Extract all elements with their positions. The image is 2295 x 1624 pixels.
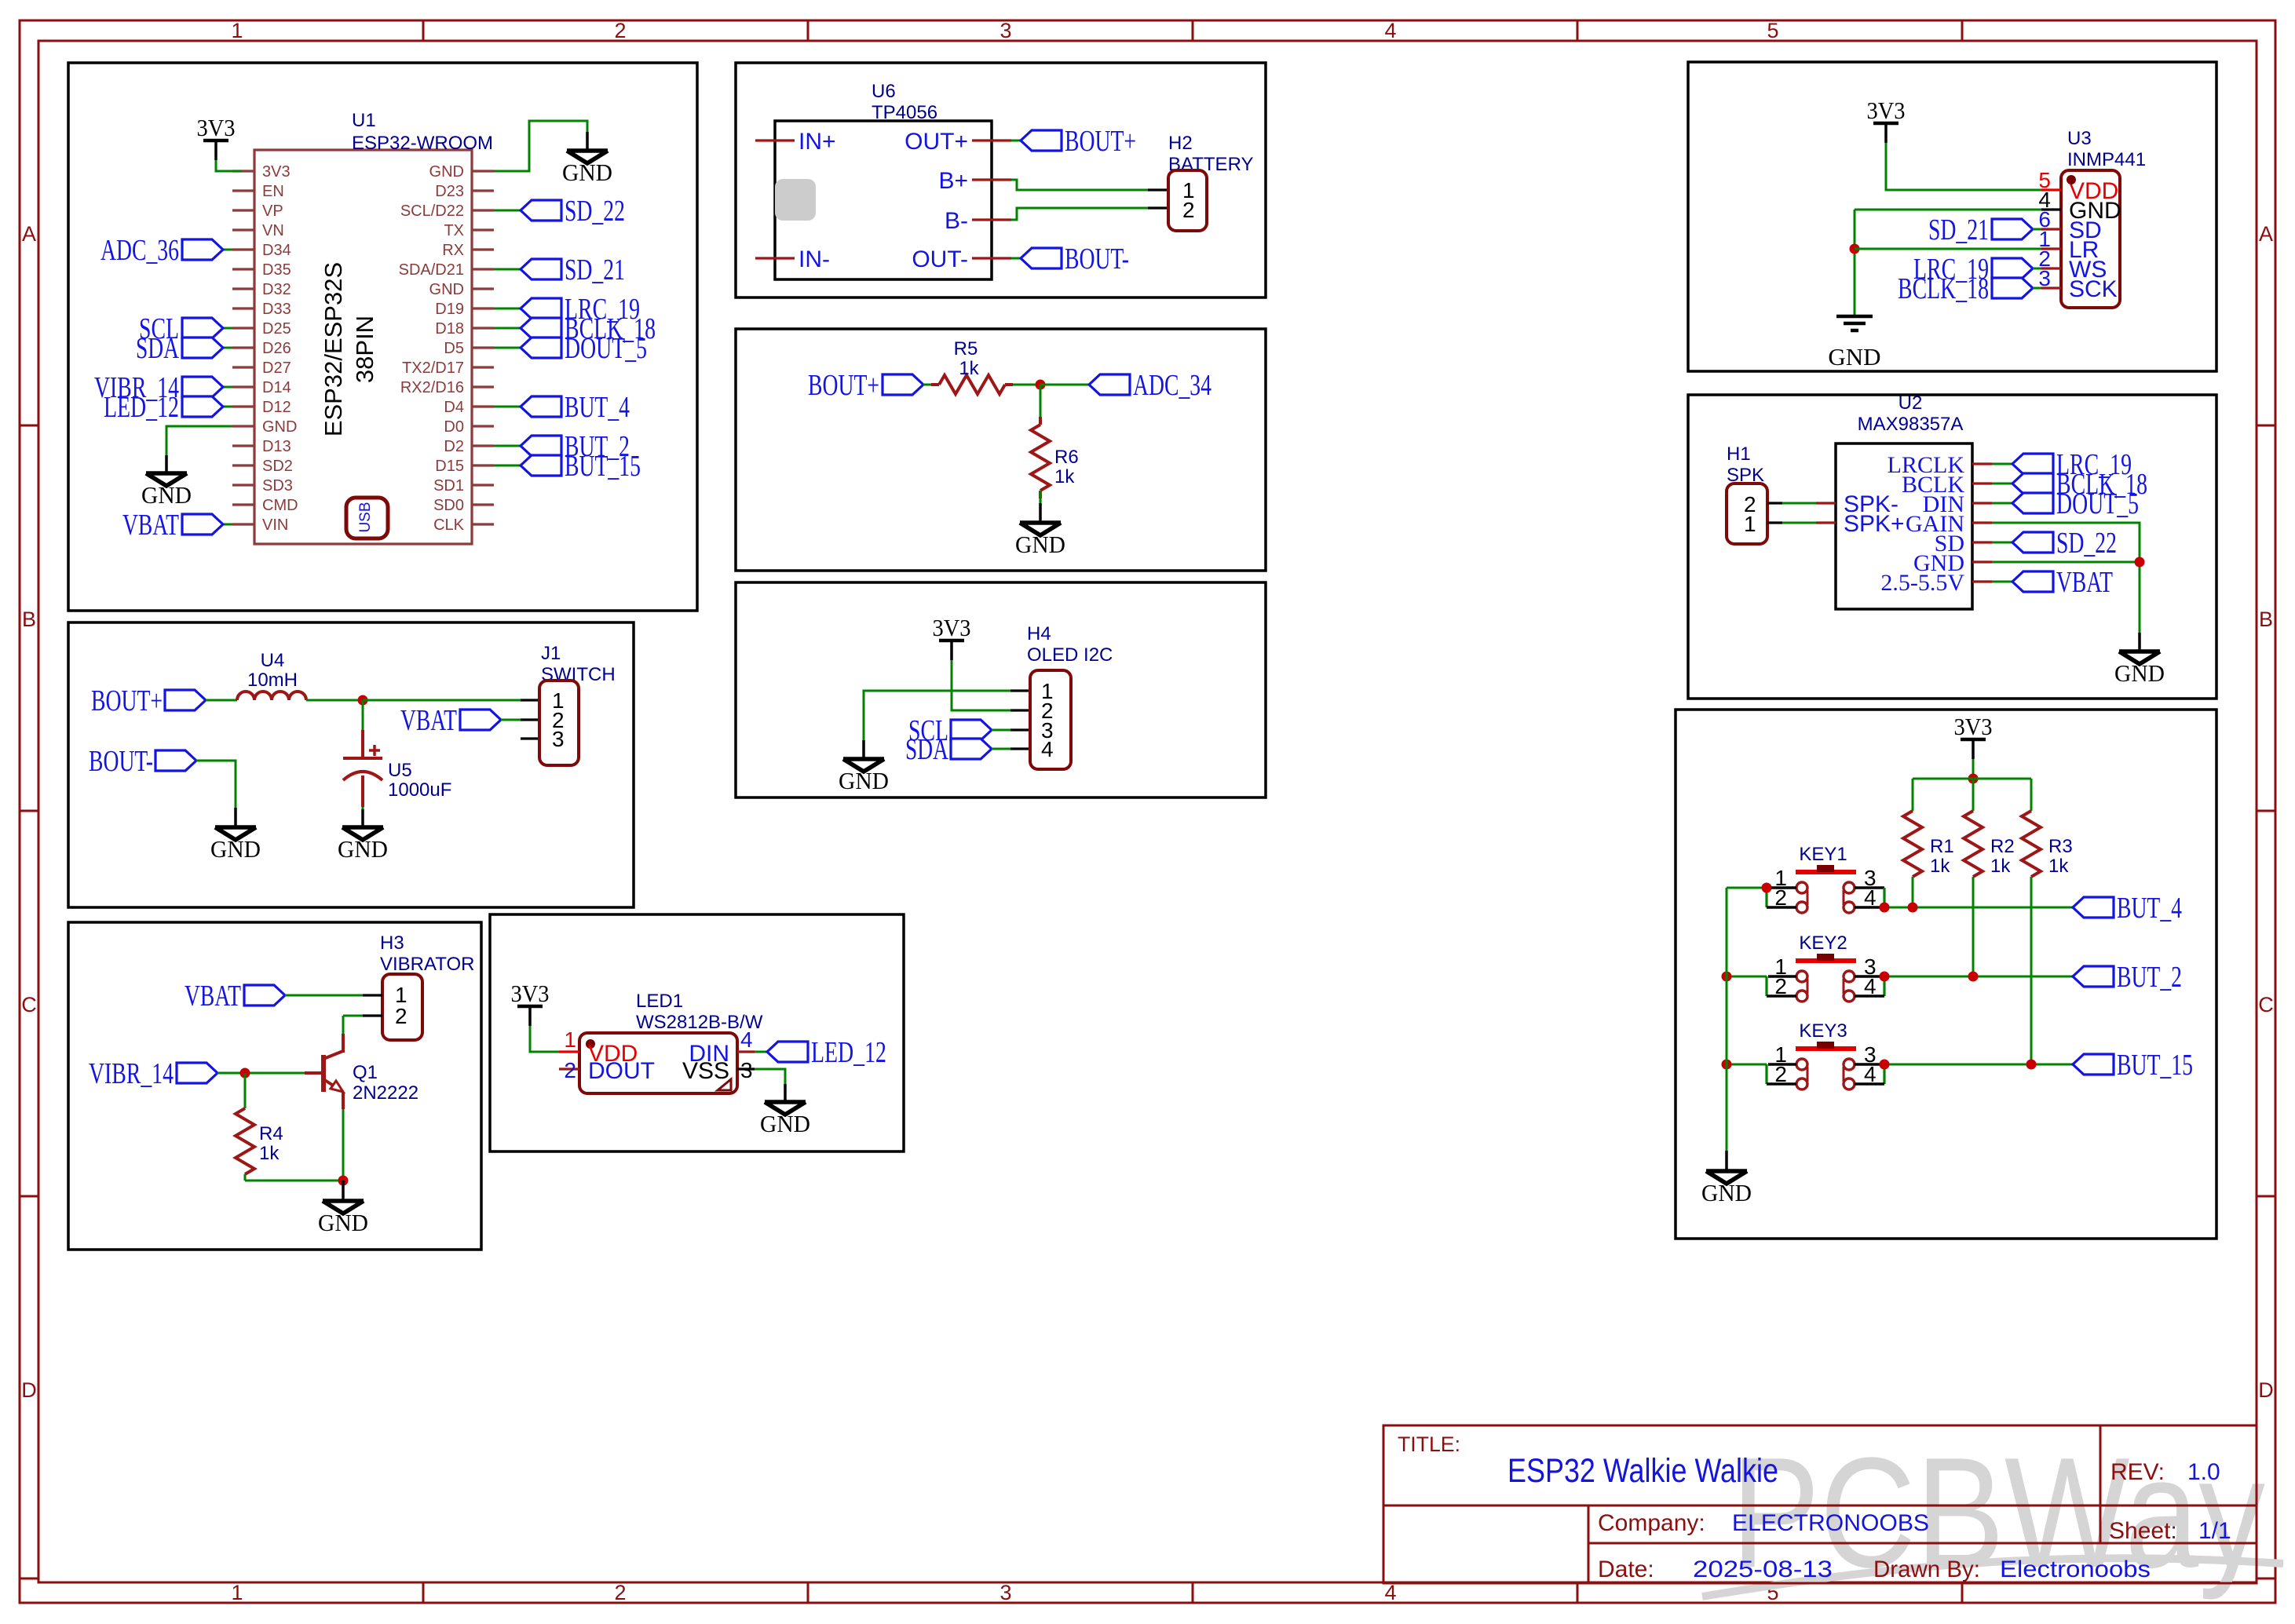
U2 pin LRCLK stub — [1972, 462, 1992, 465]
svg-text:SD2: SD2 — [262, 458, 293, 475]
svg-text:ESP32/ESP32S: ESP32/ESP32S — [320, 262, 347, 436]
wire R1 bottom lead — [1912, 877, 1914, 907]
svg-text:CMD: CMD — [262, 497, 298, 514]
U2 pin SD stub — [1972, 541, 1992, 543]
svg-text:1k: 1k — [959, 358, 979, 379]
svg-text:2: 2 — [1774, 1062, 1787, 1086]
svg-text:D19: D19 — [435, 301, 464, 318]
U1 pin D26 left stub — [232, 346, 254, 349]
svg-text:SD3: SD3 — [262, 477, 293, 494]
ground flag below keys — [1725, 1151, 1728, 1171]
J1 pin 3 stub — [521, 737, 539, 739]
svg-text:U6: U6 — [872, 81, 896, 102]
svg-text:GND: GND — [562, 159, 612, 186]
wire Q1 emitter down — [342, 1092, 345, 1109]
U1 pin TX right stub — [472, 228, 494, 231]
svg-text:D5: D5 — [444, 340, 464, 357]
wire BOUT- to ground — [196, 761, 236, 808]
wire BOUT+ to R5 — [923, 384, 939, 386]
svg-text:2.5-5.5V: 2.5-5.5V — [1880, 570, 1964, 596]
resistor R4 — [236, 1108, 254, 1174]
frame column tick top 2 — [807, 20, 809, 41]
frame row tick left 3 — [20, 1195, 38, 1198]
U1 pin D33 left stub — [232, 307, 254, 309]
svg-text:SDA: SDA — [136, 332, 179, 365]
wire L1 to node — [306, 699, 363, 702]
wire BOUT+ to L1 — [206, 699, 237, 702]
resistor R3 — [2022, 811, 2041, 877]
net port SDA at OLED — [951, 739, 992, 759]
U1 pin D23 right stub — [472, 189, 494, 192]
svg-text:SCK: SCK — [2069, 276, 2118, 302]
svg-text:1k: 1k — [1990, 856, 2011, 877]
junction node base R4 — [240, 1068, 250, 1078]
wire U1 D2 to BUT_2 — [494, 445, 521, 447]
wire SD_21 to U3 SD — [2033, 228, 2041, 231]
ground flag below Q1 — [342, 1181, 345, 1201]
svg-text:H4: H4 — [1027, 623, 1051, 644]
svg-text:D0: D0 — [444, 418, 464, 436]
wire VBAT to H3 pin1 — [285, 994, 363, 997]
svg-text:BUT_15: BUT_15 — [565, 450, 641, 483]
net port BUT_2 at U1 — [521, 436, 561, 456]
wire U1 D18 to BCLK_18 — [494, 327, 521, 330]
U1 pin SCL/D22 right stub — [472, 209, 494, 211]
U1 pin D12 left stub — [232, 405, 254, 407]
junction node KEY1 pin1 — [1762, 883, 1772, 893]
svg-text:Date:: Date: — [1598, 1556, 1654, 1582]
svg-text:BOUT-: BOUT- — [89, 745, 153, 778]
wire left rail to KEY3 — [1727, 1064, 1767, 1066]
resistor R2 — [1964, 811, 1983, 877]
net port DOUT_5 at U2 — [2012, 493, 2053, 513]
U6 USB pad — [775, 179, 816, 221]
svg-text:B: B — [22, 608, 36, 631]
svg-text:INMP441: INMP441 — [2067, 149, 2146, 170]
svg-text:4: 4 — [1864, 974, 1877, 998]
U1 pin RX right stub — [472, 248, 494, 250]
TP4056 U6 chip body — [775, 121, 992, 279]
OLED H4 pin 2 stub — [1010, 709, 1030, 711]
U6 pin IN+ stub — [755, 139, 795, 141]
net port BOUT- at filter — [155, 750, 196, 771]
capacitor U5 plates — [343, 757, 382, 760]
LED1 WS2812B chip body — [579, 1033, 737, 1093]
wire R3 top lead — [2030, 779, 2033, 811]
svg-text:VIBR_14: VIBR_14 — [89, 1057, 174, 1090]
svg-text:2025-08-13: 2025-08-13 — [1693, 1556, 1833, 1582]
wire LED DIN to LED_12 — [755, 1051, 767, 1053]
svg-text:U4: U4 — [261, 650, 285, 671]
svg-text:BOUT-: BOUT- — [1065, 243, 1129, 276]
svg-text:R2: R2 — [1990, 836, 2015, 857]
net port VIBR_14 at vibrator — [177, 1063, 217, 1083]
frame column tick top 4 — [1577, 20, 1579, 41]
U1 pin D5 right stub — [472, 346, 494, 349]
svg-text:ESP32 Walkie Walkie: ESP32 Walkie Walkie — [1507, 1452, 1778, 1490]
INMP441 U3 chip body — [2061, 170, 2120, 308]
wire VIBR_14 link — [223, 386, 232, 389]
ground flag below U5 — [361, 809, 364, 827]
U1 pin CMD left stub — [232, 503, 254, 505]
wire SDA link — [223, 347, 232, 349]
svg-text:4: 4 — [1864, 1062, 1877, 1086]
wire U2 SD to SD_22 — [1992, 542, 2012, 544]
ground flag below OLED rail — [862, 740, 865, 759]
svg-text:Sheet:: Sheet: — [2109, 1518, 2177, 1544]
svg-text:2: 2 — [564, 1058, 576, 1082]
U1 pin D27 left stub — [232, 366, 254, 368]
svg-text:1k: 1k — [1930, 856, 1950, 877]
ground flag at U1 top right — [586, 132, 589, 151]
svg-text:3V3: 3V3 — [933, 614, 971, 641]
svg-text:2: 2 — [395, 1004, 407, 1028]
svg-text:3V3: 3V3 — [1867, 97, 1906, 124]
U1 pin D4 right stub — [472, 405, 494, 407]
svg-text:DOUT: DOUT — [588, 1058, 655, 1084]
frame row tick right 1 — [2257, 425, 2275, 427]
svg-text:2: 2 — [1774, 885, 1787, 910]
U1 pin D35 left stub — [232, 268, 254, 270]
U1 pin D13 left stub — [232, 444, 254, 447]
wire U1 D4 to BUT_4 — [494, 406, 521, 408]
U2 pin DIN stub — [1972, 502, 1992, 504]
svg-text:SD_21: SD_21 — [565, 254, 625, 286]
wire node to ADC_34 — [1040, 384, 1089, 386]
svg-text:TX: TX — [444, 222, 464, 239]
U1 pin D0 right stub — [472, 425, 494, 427]
frame column tick top 5 — [1961, 20, 1964, 41]
svg-text:D33: D33 — [262, 301, 291, 318]
svg-text:VIBRATOR: VIBRATOR — [380, 954, 474, 975]
U1 USB box — [346, 498, 388, 538]
svg-text:2N2222: 2N2222 — [353, 1082, 418, 1104]
wire R6 to ground — [1039, 491, 1041, 503]
svg-text:GND: GND — [760, 1110, 810, 1137]
svg-text:D14: D14 — [262, 379, 291, 396]
svg-text:GND: GND — [1701, 1179, 1752, 1206]
svg-text:Drawn By:: Drawn By: — [1873, 1556, 1980, 1582]
svg-text:SD_22: SD_22 — [2056, 527, 2117, 560]
wire OLED pin 1 to ground rail — [864, 691, 1010, 740]
svg-text:4: 4 — [1384, 19, 1396, 42]
wire U2 BCLK to BCLK_18 — [1992, 483, 2012, 485]
svg-text:SD0: SD0 — [433, 497, 464, 514]
wire U2 Vin to VBAT — [1992, 581, 2012, 583]
svg-text:3V3: 3V3 — [262, 163, 291, 181]
U1 pin VN left stub — [232, 228, 254, 231]
U3 pin 5 stub — [2041, 188, 2061, 191]
svg-text:C: C — [21, 993, 37, 1016]
net port BCLK_18 at U2 — [2012, 473, 2053, 494]
svg-text:KEY3: KEY3 — [1799, 1020, 1847, 1042]
svg-text:D4: D4 — [444, 399, 464, 416]
wire resistor top rail — [1913, 778, 2031, 780]
svg-text:U3: U3 — [2067, 128, 2092, 149]
U1 pin D15 right stub — [472, 464, 494, 466]
net port SD_21 at U1 — [521, 259, 561, 279]
svg-text:DOUT_5: DOUT_5 — [2056, 487, 2139, 520]
U2 pin SPK- stub — [1816, 502, 1836, 504]
U2 pin BCLK stub — [1972, 482, 1992, 484]
svg-text:TITLE:: TITLE: — [1398, 1432, 1460, 1456]
svg-text:4: 4 — [1041, 737, 1054, 761]
wire 3V3 to LED VDD — [530, 1026, 559, 1052]
svg-text:D2: D2 — [444, 438, 464, 455]
wire U2 DIN to DOUT_5 — [1992, 502, 2012, 505]
U6 pin B+ stub — [972, 178, 1011, 181]
battery connector H2 body — [1168, 170, 1207, 231]
junction node KEY3 rail — [1722, 1060, 1732, 1070]
net port VBAT at filter — [460, 710, 501, 730]
net port SCL at OLED — [951, 720, 992, 740]
svg-text:BUT_4: BUT_4 — [565, 391, 630, 424]
wire left rail to KEY2 — [1727, 976, 1767, 978]
svg-text:VBAT: VBAT — [122, 509, 179, 542]
title block left cell divider — [1588, 1505, 1590, 1583]
U2 pin SPK+ stub — [1816, 521, 1836, 524]
svg-text:1/1: 1/1 — [2198, 1518, 2231, 1544]
title block outline — [1383, 1425, 2257, 1583]
svg-text:REV:: REV: — [2110, 1459, 2165, 1485]
wire 3V3 down to key rail — [1972, 759, 1975, 779]
svg-text:D35: D35 — [262, 261, 291, 279]
svg-text:A: A — [22, 222, 36, 246]
svg-text:U2: U2 — [1898, 392, 1923, 414]
net port VBAT at vibrator — [244, 985, 285, 1005]
svg-text:H2: H2 — [1168, 133, 1193, 154]
capacitor U5 bottom lead — [361, 776, 364, 807]
svg-text:H1: H1 — [1727, 443, 1751, 465]
U1 pin GND right stub — [472, 170, 494, 172]
wire R5 to node — [1013, 384, 1040, 386]
svg-text:R5: R5 — [954, 338, 978, 359]
svg-text:D18: D18 — [435, 320, 464, 338]
earth ground at U3 — [1836, 315, 1873, 319]
svg-text:VBAT: VBAT — [400, 704, 457, 737]
U1 pin EN left stub — [232, 189, 254, 192]
wire U1 SDA/D21 to SD_21 — [494, 268, 521, 271]
title block title/company divider — [1383, 1505, 2257, 1507]
resistor R6 — [1039, 417, 1042, 425]
wire SDA to OLED pin 4 — [992, 748, 1010, 750]
wire node to J1 pin1 — [363, 699, 521, 702]
transistor Q1 2N2222 — [305, 1071, 322, 1075]
svg-text:1: 1 — [231, 1581, 243, 1604]
svg-text:H3: H3 — [380, 932, 404, 954]
svg-text:MAX98357A: MAX98357A — [1858, 414, 1964, 435]
wire 3V3 down to OLED pin 2 — [952, 660, 1010, 710]
ground flag below BOUT- — [234, 808, 237, 827]
wire U6 B- to battery pin 2 — [1011, 208, 1148, 220]
U1 pin D25 left stub — [232, 327, 254, 329]
U1 pin 3V3 left stub — [232, 170, 254, 172]
svg-text:Company:: Company: — [1598, 1510, 1705, 1536]
svg-text:3V3: 3V3 — [197, 114, 236, 141]
wire KEY1 to BUT_4 — [1884, 907, 2073, 909]
LED1 pin 4 stub — [737, 1050, 755, 1053]
svg-text:J1: J1 — [541, 643, 561, 664]
svg-text:1: 1 — [231, 19, 243, 42]
svg-text:VP: VP — [262, 203, 283, 220]
U1 pin D14 left stub — [232, 385, 254, 388]
svg-text:1k: 1k — [259, 1143, 280, 1164]
net port LRC_19 at U3 — [1992, 258, 2033, 279]
net port LED_12 at U1 — [182, 396, 223, 417]
svg-text:3: 3 — [999, 19, 1011, 42]
U3 pin 3 stub — [2041, 286, 2061, 289]
net port VIBR_14 at U1 — [182, 377, 223, 397]
svg-text:A: A — [2259, 222, 2273, 246]
U1 pin TX2/D17 right stub — [472, 366, 494, 368]
U1 pin VP left stub — [232, 209, 254, 211]
wire U1 GND pin to ground top right — [494, 121, 587, 171]
U1 pin SDA/D21 right stub — [472, 268, 494, 270]
ESP32 U1 chip body — [254, 150, 472, 544]
ground flag at U1 left — [165, 455, 168, 473]
vibrator connector H3 body — [382, 974, 422, 1040]
svg-text:SCL/D22: SCL/D22 — [400, 203, 464, 220]
LED1 pin 3 stub — [737, 1067, 755, 1070]
U2 pin GAIN stub — [1972, 521, 1992, 524]
svg-text:DOUT_5: DOUT_5 — [565, 332, 647, 365]
junction node R3 BUT_15 — [2026, 1060, 2037, 1070]
frame row tick left 4 — [20, 1578, 38, 1580]
U1 pin CLK right stub — [472, 523, 494, 525]
U1 pin RX2/D16 right stub — [472, 385, 494, 388]
net port ADC_34 at divider — [1089, 374, 1130, 395]
svg-text:D26: D26 — [262, 340, 291, 357]
net port BCLK_18 at U3 — [1992, 278, 2033, 298]
svg-text:GND: GND — [262, 418, 297, 436]
wire U2 GAIN to gnd rail — [1992, 523, 2140, 633]
U1 pin SD2 left stub — [232, 464, 254, 466]
svg-text:R6: R6 — [1054, 447, 1079, 468]
svg-text:D25: D25 — [262, 320, 291, 338]
ESP32 section frame — [68, 63, 697, 611]
ground flag below R6 — [1039, 503, 1042, 523]
svg-text:OLED I2C: OLED I2C — [1027, 644, 1113, 666]
net port BUT_2 at keys — [2073, 966, 2114, 987]
U1 pin D18 right stub — [472, 327, 494, 329]
net port BOUT+ at filter — [165, 690, 206, 710]
junction node 3V3 keys — [1968, 774, 1979, 784]
svg-text:KEY2: KEY2 — [1799, 932, 1847, 954]
svg-text:GND: GND — [210, 835, 261, 863]
junction node R1 BUT_4 — [1908, 903, 1918, 913]
wire R4 bottom to emitter node — [244, 1174, 247, 1181]
wire 3V3 to U3 VDD — [1886, 143, 2041, 190]
svg-text:TX2/D17: TX2/D17 — [402, 359, 464, 377]
svg-text:VSS: VSS — [682, 1058, 729, 1084]
frame row tick right 3 — [2257, 1195, 2275, 1198]
net port LED_12 at LED — [767, 1042, 808, 1062]
frame row tick right 2 — [2257, 810, 2275, 812]
wire BCLK_18 to U3 SCK — [2033, 287, 2041, 290]
svg-text:VBAT: VBAT — [185, 980, 241, 1013]
inductor U4 — [237, 692, 306, 700]
wire R3 bottom lead — [2030, 877, 2033, 1064]
U1 pin GND left stub — [232, 425, 254, 427]
wire U2 GND to rail — [1992, 561, 2140, 564]
wire VIBR_14 to Q1 base — [217, 1072, 305, 1075]
capacitor U5 polarity plus — [369, 749, 380, 752]
frame column tick bottom 1 — [422, 1582, 425, 1603]
junction node R2 BUT_2 — [1968, 972, 1979, 982]
U1 pin D2 right stub — [472, 444, 494, 447]
wire U6 B+ to battery pin 1 — [1011, 180, 1148, 190]
svg-text:38PIN: 38PIN — [351, 316, 378, 383]
frame column tick top 3 — [1192, 20, 1194, 41]
svg-text:3V3: 3V3 — [1954, 713, 1993, 740]
U6 pin OUT- stub — [972, 257, 1011, 259]
net port LRC_19 at U1 — [521, 298, 561, 319]
wire node down to R6 — [1040, 385, 1042, 425]
svg-text:BOUT+: BOUT+ — [91, 684, 163, 717]
svg-text:BOUT+: BOUT+ — [1065, 125, 1136, 158]
frame row tick left 1 — [20, 425, 38, 427]
svg-text:VBAT: VBAT — [2056, 566, 2113, 599]
svg-text:BCLK_18: BCLK_18 — [1898, 272, 1989, 305]
net port BOUT+ at divider — [883, 374, 923, 395]
junction node KEY1 pin4 — [1880, 903, 1890, 913]
svg-text:ESP32-WROOM: ESP32-WROOM — [352, 133, 493, 154]
svg-text:VN: VN — [262, 222, 284, 239]
filter section frame — [68, 622, 634, 907]
svg-text:1000uF: 1000uF — [388, 779, 451, 801]
net port BOUT+ at U6 — [1021, 130, 1062, 151]
svg-text:3: 3 — [999, 1581, 1011, 1604]
U3 pin 2 stub — [2041, 267, 2061, 269]
net port DOUT_5 at U1 — [521, 338, 561, 358]
U6 pin IN- stub — [755, 257, 795, 259]
svg-text:10mH: 10mH — [247, 670, 298, 691]
vibrator section frame — [68, 922, 481, 1250]
svg-text:1: 1 — [564, 1027, 576, 1052]
svg-text:1k: 1k — [1054, 466, 1075, 487]
U1 pin D32 left stub — [232, 287, 254, 290]
svg-text:U1: U1 — [352, 110, 376, 131]
svg-text:GND: GND — [1015, 531, 1065, 558]
frame row tick left 2 — [20, 810, 38, 812]
svg-text:D13: D13 — [262, 438, 291, 455]
capacitor U5 top lead — [362, 700, 364, 730]
svg-text:GND: GND — [338, 835, 388, 863]
svg-text:ADC_34: ADC_34 — [1133, 369, 1211, 402]
wire LED VSS to ground — [755, 1069, 785, 1084]
wire 3V3 to U1 3V3 pin — [216, 160, 242, 171]
svg-text:Q1: Q1 — [353, 1062, 378, 1083]
OLED section frame — [736, 582, 1266, 797]
U3 pin 1 marker dot — [2067, 175, 2076, 184]
resistor R5 — [931, 383, 939, 386]
wire R4 top lead — [244, 1073, 247, 1108]
svg-text:SD_21: SD_21 — [1928, 213, 1989, 246]
svg-text:USB: USB — [357, 502, 374, 532]
junction node KEY3 pin3 — [1880, 1060, 1890, 1070]
TP4056 charger section frame — [736, 63, 1266, 297]
svg-text:1: 1 — [1744, 512, 1756, 536]
LED1 pin 1 marker dot — [586, 1039, 595, 1049]
wire KEY3 to BUT_15 — [1884, 1064, 2073, 1066]
wire VBAT to J1 pin2 — [501, 719, 521, 721]
svg-text:D: D — [21, 1378, 37, 1402]
svg-text:BUT_2: BUT_2 — [2117, 961, 2182, 994]
svg-text:Electronoobs: Electronoobs — [2000, 1556, 2151, 1582]
svg-text:D27: D27 — [262, 359, 291, 377]
wire R1 top lead — [1912, 779, 1914, 811]
svg-text:GND: GND — [839, 767, 889, 794]
